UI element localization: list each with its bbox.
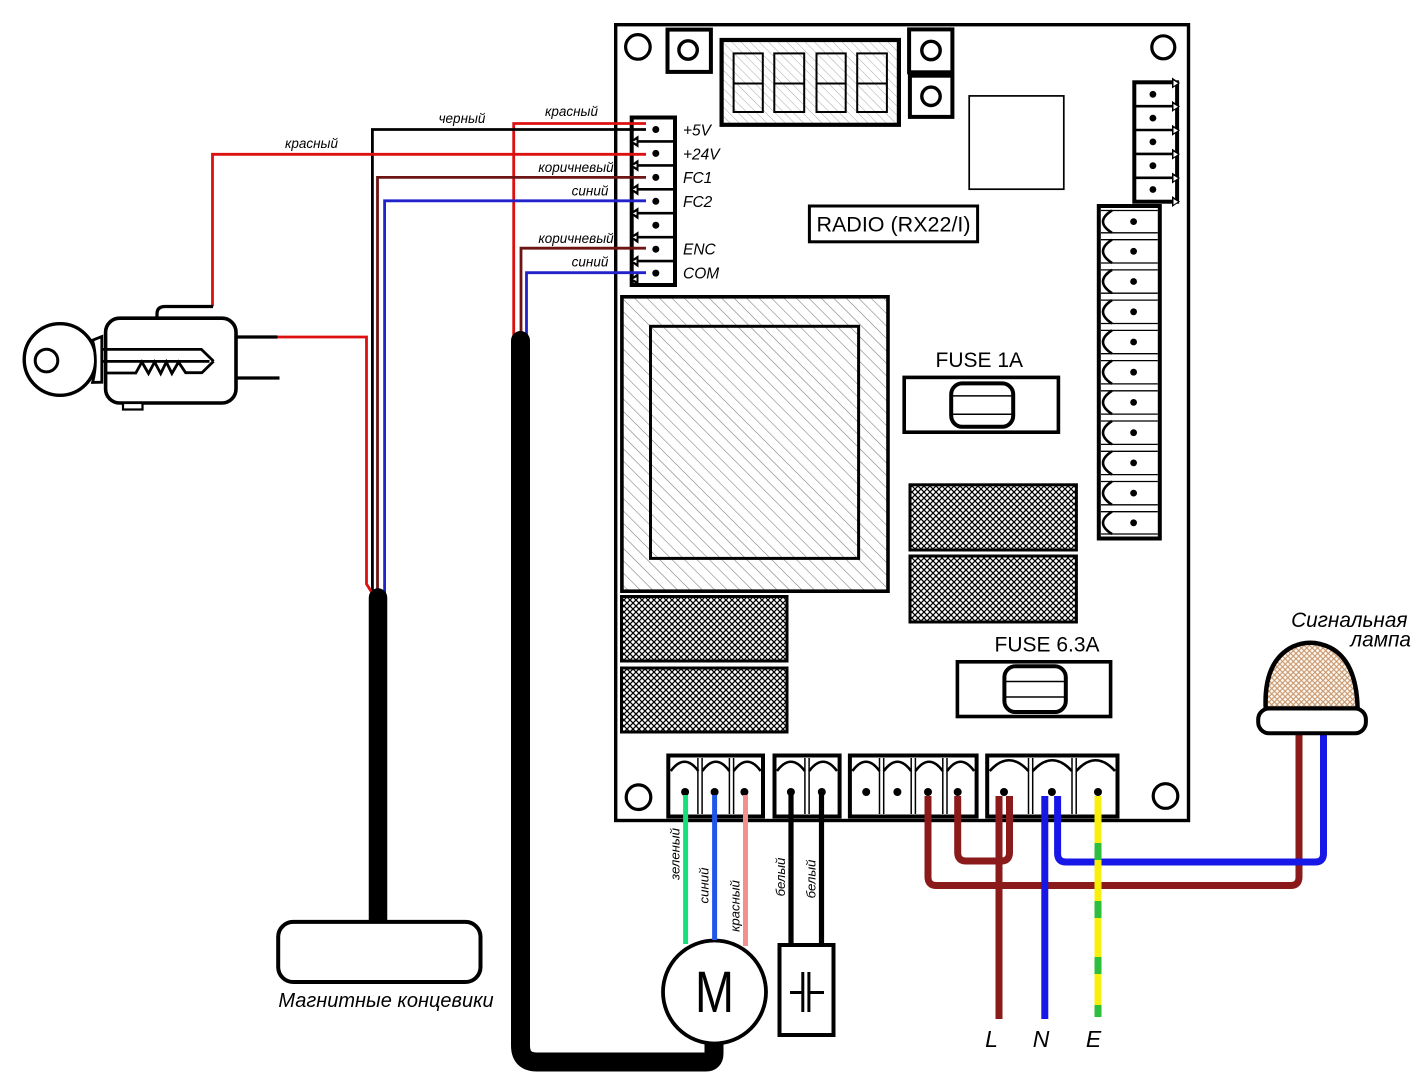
wire красный +5V: [514, 124, 646, 337]
wire синий motor: [712, 795, 717, 940]
svg-text:белый: белый: [804, 859, 819, 898]
wire maroon lamp feed: [928, 733, 1299, 886]
svg-text:синий: синий: [572, 255, 609, 270]
label RADIO (RX22/I): [809, 206, 977, 242]
svg-text:зеленый: зеленый: [668, 827, 683, 881]
mounting hole top-left: [626, 35, 651, 60]
signal lamp HL1: [1258, 643, 1366, 734]
mounting hole top-right: [1152, 36, 1175, 59]
board outline: [616, 25, 1189, 821]
svg-text:красный: красный: [285, 136, 339, 151]
svg-text:FUSE 1A: FUSE 1A: [936, 349, 1024, 372]
capacitor C1: [780, 945, 834, 1035]
svg-text:COM: COM: [683, 266, 719, 283]
wire E yellow-green: [1095, 796, 1102, 1017]
terminal block X2: [775, 756, 840, 817]
svg-text:красный: красный: [545, 104, 599, 119]
wire красный +24V: [213, 154, 647, 306]
connector J3 right 11-pin: [1099, 206, 1160, 539]
svg-text:FC1: FC1: [683, 170, 712, 187]
svg-text:коричневый: коричневый: [538, 231, 614, 246]
wire красный key to cable: [278, 337, 373, 594]
svg-text:коричневый: коричневый: [538, 160, 614, 175]
mounting hole bottom-right: [1153, 784, 1178, 809]
svg-text:красный: красный: [728, 879, 743, 931]
svg-text:N: N: [1033, 1026, 1050, 1052]
svg-text:FUSE 6.3A: FUSE 6.3A: [995, 634, 1100, 657]
wire синий COM: [527, 273, 647, 337]
wire черный: [372, 130, 646, 593]
cable to motor: [521, 341, 715, 1063]
wire коричневый ENC: [521, 248, 646, 336]
svg-text:+5V: +5V: [683, 123, 713, 140]
fuse F1: [904, 377, 1058, 432]
cable to limit switches: [369, 598, 388, 923]
svg-text:синий: синий: [572, 184, 609, 199]
terminal block J1: [630, 118, 676, 286]
svg-text:RADIO (RX22/I): RADIO (RX22/I): [816, 213, 970, 237]
wire красный motor: [743, 795, 748, 946]
svg-text:синий: синий: [697, 867, 712, 904]
terminal block X4: [987, 756, 1117, 817]
svg-text:белый: белый: [773, 857, 788, 896]
button S2: [909, 29, 952, 72]
svg-text:Магнитные концевики: Магнитные концевики: [278, 990, 493, 1012]
svg-text:L: L: [985, 1026, 998, 1052]
transformer T1: [622, 297, 888, 591]
svg-text:E: E: [1086, 1026, 1102, 1052]
motor M1: [663, 941, 766, 1044]
mounting hole bottom-left: [626, 785, 651, 810]
svg-text:лампа: лампа: [1349, 629, 1411, 652]
fuse F2: [957, 662, 1110, 717]
svg-text:FC2: FC2: [683, 194, 713, 211]
wire maroon jumper: [958, 796, 1010, 861]
connector J2 top-right: [1134, 78, 1180, 208]
button S3: [910, 76, 953, 117]
heatsink pad A2: [622, 668, 788, 732]
7-segment display DS1: [722, 40, 899, 125]
wire белый 1: [788, 795, 793, 945]
svg-text:+24V: +24V: [683, 147, 721, 164]
wire коричневый FC1: [378, 177, 647, 592]
radio module U2: [969, 96, 1064, 189]
wire синий FC2: [385, 201, 646, 593]
terminal block X3: [850, 756, 977, 817]
heatsink pad A4: [910, 556, 1076, 622]
button S1: [668, 30, 711, 72]
wire L: [996, 796, 1003, 1019]
terminal block X1: [668, 756, 763, 817]
wire зеленый: [683, 795, 688, 944]
wire blue lamp feed: [1058, 733, 1324, 862]
key switch SW1: [24, 307, 279, 410]
heatsink pad A3: [910, 485, 1076, 550]
svg-text:черный: черный: [439, 111, 486, 126]
wire N: [1041, 796, 1048, 1019]
wire белый 2: [819, 795, 824, 945]
svg-text:ENC: ENC: [683, 242, 717, 259]
limit switch block: [278, 922, 480, 982]
svg-text:M: M: [695, 960, 734, 1025]
heatsink pad A1: [622, 597, 788, 662]
